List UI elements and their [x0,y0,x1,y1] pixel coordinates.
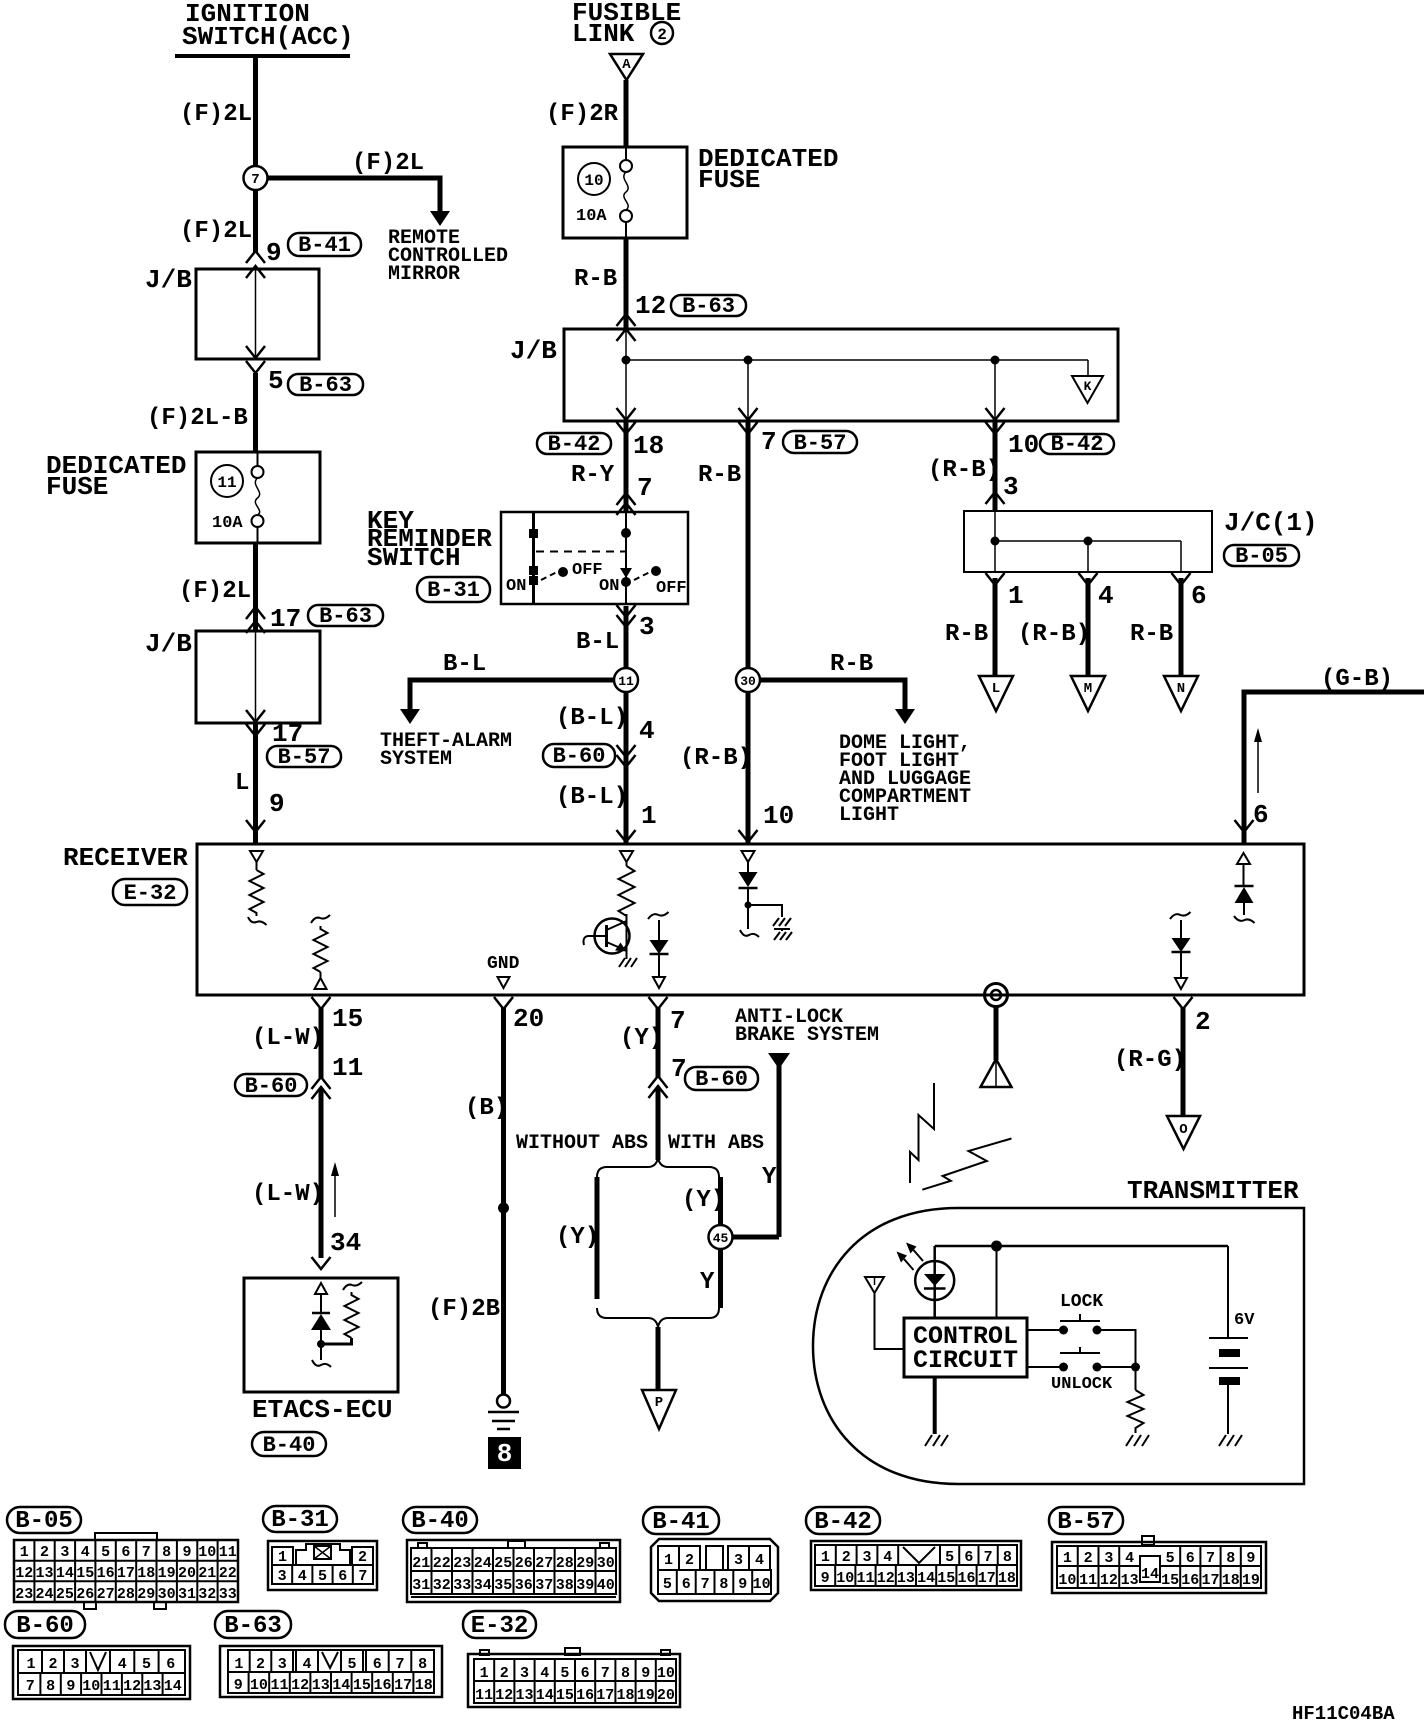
svg-text:5: 5 [268,366,284,396]
svg-text:22: 22 [433,1555,451,1572]
wire below ETACS junction [320,1344,322,1360]
wire R-Y from J/B to key reminder switch [624,421,629,512]
svg-text:3: 3 [1104,1550,1113,1567]
connector label B-05 bottom [7,1507,81,1535]
svg-text:34: 34 [330,1228,361,1258]
svg-text:14: 14 [56,1565,74,1582]
svg-text:19: 19 [158,1565,176,1582]
svg-text:(Y): (Y) [620,1025,663,1052]
svg-text:4: 4 [1125,1550,1134,1567]
svg-text:1: 1 [20,1544,29,1561]
connector pinout B-05 [14,1533,238,1609]
diode D4 inside receiver pointing up [1235,886,1254,915]
connector pinout B-31 [268,1541,377,1590]
svg-text:B-42: B-42 [814,1509,872,1536]
svg-text:BRAKE SYSTEM: BRAKE SYSTEM [735,1024,879,1047]
svg-text:6V: 6V [1234,1311,1255,1330]
svg-text:12: 12 [635,291,666,321]
svg-text:14: 14 [1141,1566,1159,1583]
connector label B-41 bottom [643,1507,719,1536]
svg-text:14: 14 [164,1678,182,1695]
svg-text:B-31: B-31 [271,1507,329,1534]
connector label E-32 bottom [463,1611,536,1640]
svg-text:35: 35 [494,1577,512,1594]
terminal N triangle [1164,676,1198,711]
dedicated fuse 10 box [563,147,687,238]
node 11 splice circle [614,668,638,692]
svg-text:3: 3 [70,1656,79,1673]
svg-text:10: 10 [82,1678,100,1695]
junction dot on bus at x995 [991,356,1000,365]
junction arrow leaving J/B2 pin 17 [246,724,265,736]
svg-text:(R-B): (R-B) [928,457,1000,484]
svg-text:LOCK: LOCK [1060,1292,1103,1312]
svg-text:7: 7 [984,1549,993,1566]
svg-text:15: 15 [1161,1572,1179,1589]
svg-text:B-L: B-L [443,651,486,678]
svg-text:ON: ON [599,577,619,596]
svg-text:GND: GND [487,954,520,974]
junction arrows leaving key switch pin 3 [617,605,636,627]
wire (F)2L-B from J/B to dedicated fuse 11 [253,373,258,452]
junction arrow into receiver pin 10 [739,830,758,842]
svg-text:38: 38 [556,1577,574,1594]
svg-text:R-B: R-B [945,621,988,648]
wire Y to anti-lock brake system with arrow [768,1053,790,1237]
svg-text:14: 14 [917,1570,935,1587]
svg-text:1: 1 [821,1549,830,1566]
diode D1 column coil hook [648,912,669,919]
svg-text:5: 5 [663,1576,672,1593]
svg-text:31: 31 [412,1577,430,1594]
svg-text:11: 11 [332,1053,363,1083]
svg-text:11: 11 [618,674,634,689]
svg-text:10: 10 [836,1570,854,1587]
connector label B-42 left [537,432,611,457]
svg-text:ETACS-ECU: ETACS-ECU [252,1395,392,1425]
fuse number circle 11 [211,465,243,497]
svg-text:WITHOUT ABS: WITHOUT ABS [516,1132,648,1155]
svg-text:6: 6 [964,1549,973,1566]
svg-text:FUSE: FUSE [46,472,108,502]
svg-text:9: 9 [1246,1550,1255,1567]
svg-text:CIRCUIT: CIRCUIT [913,1346,1018,1375]
svg-text:2: 2 [40,1544,49,1561]
wire R-B from fuse 10 to J/B pin 12 [624,238,629,329]
chassis ground of battery [1219,1435,1242,1446]
svg-text:B-41: B-41 [298,233,351,258]
junction arrow leaving J/C pin 1 [986,573,1005,585]
svg-text:7: 7 [26,1678,35,1695]
svg-text:18: 18 [137,1565,155,1582]
ETACS input triangle [315,1283,327,1313]
svg-text:10: 10 [1008,430,1039,460]
connector label B-60 [235,1074,307,1099]
terminal L triangle [979,676,1013,711]
svg-text:E-32: E-32 [124,881,177,906]
svg-text:3: 3 [278,1656,287,1673]
junction arrow leaving J/B1 pin 5 [246,361,265,373]
label DEDICATED FUSE [698,144,838,195]
resistor R4 inside ETACS [321,1282,362,1344]
svg-text:B-57: B-57 [1057,1509,1115,1536]
svg-text:(R-G): (R-G) [1114,1047,1186,1074]
svg-text:24: 24 [474,1555,492,1572]
junction arrows into key reminder switch [617,493,636,515]
svg-text:3: 3 [639,612,655,642]
svg-text:11: 11 [856,1570,874,1587]
svg-text:17: 17 [1201,1572,1219,1589]
svg-text:8: 8 [719,1576,728,1593]
svg-text:(B-L): (B-L) [556,784,628,811]
svg-text:B-60: B-60 [553,744,606,769]
node 45 splice circle [709,1225,733,1249]
svg-text:6: 6 [682,1576,691,1593]
svg-text:18: 18 [633,431,664,461]
junction arrow into receiver pin 6 [1235,820,1254,832]
junction arrow at J/B2 top [246,621,265,633]
svg-text:B-40: B-40 [411,1508,469,1535]
connector pinout E-32 [468,1648,680,1707]
node REMOTE CONTROLLED MIRROR destination [388,227,508,286]
svg-text:4: 4 [540,1665,549,1682]
svg-text:25: 25 [494,1555,512,1572]
dedicated fuse 11 box [196,452,320,543]
svg-text:MIRROR: MIRROR [388,263,460,286]
resistor R1 inside receiver [250,870,264,916]
junction arrow into receiver pin 1 [617,830,636,842]
key switch left pole contacts [529,529,538,585]
lower brace for ABS variants [597,1308,719,1327]
svg-text:3: 3 [862,1549,871,1566]
node 7 splice circle [244,166,268,190]
svg-text:28: 28 [556,1555,574,1572]
junction arrow into B-41 [246,251,265,263]
chassis ground hatch lower [774,929,792,940]
svg-text:B-05: B-05 [15,1508,73,1535]
svg-text:(Y): (Y) [556,1224,599,1251]
junction arrows leaving J/B pin 7 [739,408,758,434]
node 30 splice circle [736,668,760,692]
svg-text:M: M [1084,681,1092,697]
svg-text:18: 18 [415,1677,433,1694]
svg-text:7: 7 [395,1656,404,1673]
svg-text:8: 8 [497,1439,513,1469]
wire (Y) from B-60 to ABS branch [656,1088,661,1160]
svg-text:39: 39 [576,1577,594,1594]
diode D3 inside receiver [1172,920,1191,989]
connector label B-42 bottom [806,1507,880,1536]
svg-text:11: 11 [103,1678,121,1695]
key switch middle blade arrow [620,568,632,578]
svg-text:1: 1 [1063,1550,1072,1567]
svg-text:B-63: B-63 [682,294,735,319]
svg-text:B-40: B-40 [263,1433,316,1458]
svg-text:2: 2 [48,1656,57,1673]
svg-text:HF11C04BA: HF11C04BA [1292,1703,1395,1725]
svg-text:B-L: B-L [576,629,619,656]
connector label B-57 bottom [1049,1507,1123,1536]
junction dot on ground wire [498,1203,509,1214]
svg-text:30: 30 [740,674,756,689]
wire (F)2L branch to remote controlled mirror [267,178,450,226]
svg-text:Y: Y [762,1164,777,1191]
key switch middle contact dot [621,577,631,587]
connector label B-63 bottom [215,1611,291,1640]
resistor R3 inside receiver [619,866,635,922]
svg-text:7: 7 [670,1006,686,1036]
wire to capacitor ground branch [748,905,782,917]
radio wave bolt 2 [922,1139,1011,1190]
terminal O triangle [1167,1116,1200,1149]
svg-text:7: 7 [701,1576,710,1593]
svg-text:B-60: B-60 [695,1067,748,1092]
receiver pin 10 input triangle [742,851,755,872]
svg-text:J/B: J/B [145,265,192,295]
svg-text:2: 2 [657,26,667,44]
svg-text:13: 13 [1121,1572,1139,1589]
svg-text:5: 5 [142,1656,151,1673]
svg-text:B-63: B-63 [299,373,352,398]
junction dot on supply bus [991,1241,1002,1252]
svg-text:WITH ABS: WITH ABS [668,1132,764,1155]
svg-text:17: 17 [117,1565,135,1582]
junction arrows leaving J/B pin 10 [986,408,1005,434]
transistor Q1 inside receiver [584,914,630,959]
wire (F)2R from fusible link to dedicated fuse 10 [624,80,629,147]
wire (R-B) from J/B pin 10 to J/C(1) [993,421,998,512]
svg-text:8: 8 [621,1665,630,1682]
svg-text:(R-B): (R-B) [1018,621,1090,648]
diode D4 coil hook [1234,916,1255,923]
junction arrows at B-60 [617,745,636,767]
svg-text:18: 18 [998,1570,1016,1587]
junction arrow into J/B pin 12 [617,314,636,326]
svg-text:R-B: R-B [830,651,873,678]
ground reference box 8 [488,1437,521,1469]
coil hook below D2 junction [740,930,759,937]
svg-text:6: 6 [166,1656,175,1673]
wire branch without ABS [595,1177,600,1299]
junction dot on bus at x626 [622,356,631,365]
svg-text:B-63: B-63 [224,1613,282,1640]
svg-text:6: 6 [373,1656,382,1673]
svg-text:21: 21 [412,1555,430,1572]
wire (F)2L from fuse 11 to J/B pin 17 [253,543,258,631]
svg-text:6: 6 [338,1568,347,1585]
svg-text:B-42: B-42 [548,432,601,457]
svg-text:8: 8 [162,1544,171,1561]
svg-text:(R-B): (R-B) [680,745,752,772]
svg-text:20: 20 [657,1687,675,1704]
svg-text:16: 16 [1181,1572,1199,1589]
svg-text:30: 30 [597,1555,615,1572]
svg-text:(F)2L: (F)2L [180,101,252,128]
svg-text:R-B: R-B [698,462,741,489]
svg-text:17: 17 [978,1570,996,1587]
svg-text:7: 7 [251,172,259,188]
svg-text:B-41: B-41 [652,1509,710,1536]
svg-text:1: 1 [234,1656,243,1673]
svg-text:10: 10 [1058,1572,1076,1589]
svg-text:7: 7 [601,1665,610,1682]
connector pinout B-60 [13,1646,190,1699]
svg-text:2: 2 [500,1665,509,1682]
svg-text:28: 28 [117,1586,135,1603]
svg-text:TRANSMITTER: TRANSMITTER [1127,1176,1299,1206]
svg-text:3: 3 [278,1568,287,1585]
J/B wide junction block box [564,329,1118,421]
receiver pin 1 input triangle [620,851,633,866]
svg-text:(F)2L: (F)2L [179,578,251,605]
svg-text:5: 5 [945,1549,954,1566]
fuse number circle 10 [578,163,610,195]
svg-text:N: N [1177,681,1185,697]
junction arrow at J/B2 bottom inside [246,710,265,722]
wire R-B to ground N [1179,578,1184,677]
svg-text:4: 4 [639,716,655,746]
upper brace for ABS variants [597,1158,719,1177]
wire from brace to terminal P [656,1327,661,1391]
label KEY REMINDER SWITCH [367,506,492,573]
svg-text:1: 1 [26,1656,35,1673]
junction arrow below receiver pin 2 [1174,997,1193,1009]
svg-text:4: 4 [755,1552,764,1569]
svg-text:R-Y: R-Y [571,462,615,489]
wire R-B to ground L [993,578,998,677]
radio wave bolt 1 [910,1083,934,1183]
junction arrow at J/B1 bottom inside [246,346,265,358]
svg-text:11: 11 [475,1687,493,1704]
wire branch with ABS lower [718,1249,723,1308]
svg-text:7: 7 [142,1544,151,1561]
svg-text:27: 27 [535,1555,553,1572]
svg-text:7: 7 [1206,1550,1215,1567]
svg-text:11: 11 [217,474,236,492]
junction dot in J/C at x995 [991,537,1000,546]
svg-text:4: 4 [1098,581,1114,611]
svg-text:9: 9 [66,1678,75,1695]
svg-text:20: 20 [513,1004,544,1034]
svg-text:17: 17 [394,1677,412,1694]
svg-text:33: 33 [453,1577,471,1594]
connector pinout B-57 [1052,1536,1266,1593]
svg-text:L: L [235,770,249,797]
junction arrow at J/B top pin 9 [246,266,265,278]
svg-text:3: 3 [60,1544,69,1561]
svg-text:K: K [1084,379,1092,394]
wire B-L from key switch to node 11 [624,606,629,669]
label DEDICATED FUSE [46,451,186,502]
svg-text:(F)2R: (F)2R [546,101,619,128]
J/C(1) joint connector box [964,511,1212,572]
receiver pin 9 input triangle [250,851,263,870]
svg-text:3: 3 [520,1665,529,1682]
svg-text:SWITCH: SWITCH [367,543,461,573]
transmitter antenna [865,1277,904,1349]
svg-text:10: 10 [198,1544,216,1561]
connector label B-57 [783,431,857,456]
svg-text:25: 25 [56,1586,74,1603]
coil hook inside ETACS [312,1360,331,1367]
svg-text:OFF: OFF [656,579,687,598]
junction arrow leaving J/C pin 6 [1172,573,1191,585]
terminal M triangle [1071,676,1105,711]
connector label B-57 [267,745,341,770]
wire R-B from J/B pin 7 to node 30 [746,421,751,669]
junction arrow below receiver pin 7 [649,997,668,1009]
svg-text:(F)2L-B: (F)2L-B [147,405,248,432]
diode D2 inside receiver [739,872,758,929]
svg-text:RECEIVER: RECEIVER [63,843,188,873]
svg-text:15: 15 [937,1570,955,1587]
svg-text:21: 21 [198,1565,216,1582]
svg-text:J/B: J/B [510,336,557,366]
svg-text:L: L [992,681,1000,697]
svg-text:4: 4 [81,1544,90,1561]
svg-text:B-60: B-60 [16,1613,74,1640]
svg-text:(B-L): (B-L) [556,705,628,732]
svg-text:9: 9 [234,1677,243,1694]
svg-text:33: 33 [219,1586,237,1603]
svg-text:11: 11 [270,1677,288,1694]
wire (R-B) to ground M [1086,578,1091,677]
svg-text:16: 16 [97,1565,115,1582]
svg-text:2: 2 [842,1549,851,1566]
svg-text:9: 9 [738,1576,747,1593]
wire branch with ABS upper [718,1177,723,1226]
svg-text:12: 12 [123,1678,141,1695]
svg-text:2: 2 [685,1552,694,1569]
svg-text:12: 12 [877,1570,895,1587]
svg-text:3: 3 [734,1552,743,1569]
svg-text:10: 10 [657,1665,675,1682]
wire (L-W) from B-60 to ETACS pin 34 [319,1089,324,1258]
svg-text:E-32: E-32 [471,1613,529,1640]
svg-text:13: 13 [515,1687,533,1704]
svg-text:(L-W): (L-W) [252,1025,324,1052]
key switch blade 1 dashed with contact dot [541,567,568,580]
junction arrow leaving J/C pin 4 [1079,573,1098,585]
svg-text:4: 4 [298,1568,307,1585]
CONTROL CIRCUIT box U1 [904,1318,1027,1377]
key switch dashed coupling line [536,551,626,553]
svg-text:11: 11 [219,1544,237,1561]
battery BT1 6V [1209,1246,1248,1434]
wire L from J/B to receiver pin 9 [253,723,258,844]
svg-text:9: 9 [821,1570,830,1587]
svg-text:29: 29 [137,1586,155,1603]
node ANTI-LOCK BRAKE SYSTEM destination [735,1006,879,1047]
svg-text:31: 31 [178,1586,196,1603]
svg-text:2: 2 [358,1549,367,1566]
svg-text:26: 26 [515,1555,533,1572]
connector label B-60 [543,744,615,769]
connector label B-05 [1224,544,1299,569]
svg-text:SWITCH(ACC): SWITCH(ACC) [182,22,354,52]
resistor R2 upper hook [311,915,330,923]
svg-text:1: 1 [278,1549,287,1566]
svg-text:FUSE: FUSE [698,165,760,195]
svg-text:4: 4 [302,1656,311,1673]
fuse 10 element [620,147,632,238]
svg-text:10A: 10A [212,514,243,533]
svg-text:13: 13 [312,1677,330,1694]
wire (G-B) from right edge to receiver pin 6 [1244,692,1424,844]
direction arrow up beside G-B wire [1254,728,1262,793]
svg-text:27: 27 [97,1586,115,1603]
key switch left pole wire [532,512,535,604]
